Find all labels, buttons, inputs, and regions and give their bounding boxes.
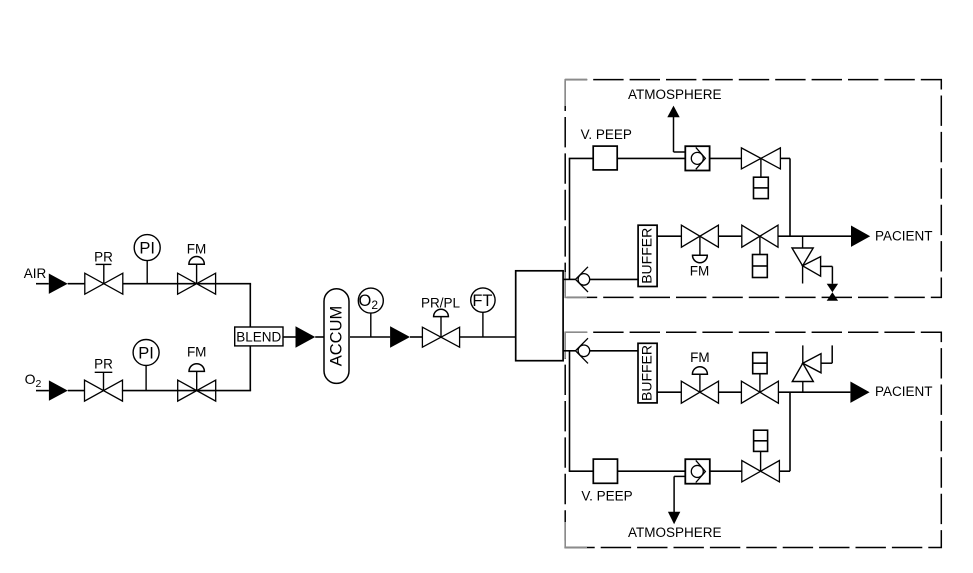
svg-text:ATMOSPHERE: ATMOSPHERE	[628, 87, 722, 102]
svg-text:FM: FM	[187, 242, 207, 257]
svg-text:AIR: AIR	[24, 266, 47, 281]
svg-text:FM: FM	[187, 345, 207, 360]
svg-text:BUFFER: BUFFER	[639, 228, 655, 284]
svg-text:V. PEEP: V. PEEP	[581, 127, 632, 142]
svg-text:ACCUM: ACCUM	[328, 306, 346, 367]
svg-text:FM: FM	[690, 350, 710, 365]
svg-text:PI: PI	[139, 239, 155, 257]
svg-text:PR: PR	[94, 356, 113, 371]
svg-text:FT: FT	[472, 292, 492, 310]
svg-text:FM: FM	[690, 263, 710, 278]
svg-text:V. PEEP: V. PEEP	[581, 488, 632, 503]
svg-text:PI: PI	[138, 344, 154, 362]
svg-text:BLEND: BLEND	[236, 330, 281, 345]
svg-text:ATMOSPHERE: ATMOSPHERE	[628, 525, 722, 540]
svg-text:PR: PR	[94, 249, 113, 264]
svg-text:PACIENT: PACIENT	[875, 228, 933, 243]
svg-text:BUFFER: BUFFER	[638, 345, 654, 401]
svg-text:PACIENT: PACIENT	[875, 384, 933, 399]
svg-text:PR/PL: PR/PL	[421, 296, 461, 311]
